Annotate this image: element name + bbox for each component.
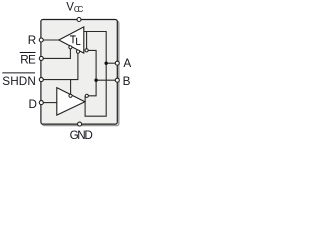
wire SHDN branch to driver enable xyxy=(70,80,72,95)
wire B net xyxy=(88,50,96,95)
svg-text:A: A xyxy=(123,57,131,70)
svg-text:B: B xyxy=(123,75,131,88)
svg-text:CC: CC xyxy=(74,5,84,14)
junction node A xyxy=(105,62,108,65)
pin A xyxy=(115,61,119,65)
pin B xyxy=(115,78,119,82)
svg-text:SHDN: SHDN xyxy=(2,75,36,88)
overline RE xyxy=(20,52,36,54)
pin R xyxy=(39,38,43,42)
driver triangle (points right) xyxy=(57,88,85,116)
wire to pin A xyxy=(106,62,115,64)
svg-text:RE: RE xyxy=(20,53,36,66)
IC body drop shadow xyxy=(42,21,118,126)
svg-text:GND: GND xyxy=(70,129,93,142)
pin D xyxy=(39,101,43,105)
wire SHDN xyxy=(41,53,78,79)
pin GND xyxy=(78,122,82,126)
hysteresis symbol xyxy=(70,36,81,45)
bubble inverter upper xyxy=(85,49,88,52)
wire R to receiver output xyxy=(41,39,59,41)
bubble SHDN enable upper xyxy=(76,50,79,53)
overline SHDN xyxy=(2,72,35,74)
bubble inverter lower xyxy=(85,94,88,97)
bubble SHDN enable lower xyxy=(69,94,72,97)
receiver triangle (points left) xyxy=(59,27,84,53)
wire D input xyxy=(41,102,57,104)
svg-text:D: D xyxy=(29,98,37,111)
IC body box U1 xyxy=(41,20,117,125)
wire riser to inverter bubble upper xyxy=(86,32,88,49)
junction node B xyxy=(94,79,97,82)
wire to pin B xyxy=(96,79,115,81)
pin RE xyxy=(39,56,43,60)
svg-text:R: R xyxy=(28,34,36,47)
wire A net feedback loop xyxy=(84,32,106,117)
pin VCC xyxy=(77,18,81,22)
pin SHDN xyxy=(39,78,43,82)
wire RE to enable bubble xyxy=(41,49,70,59)
bubble RE enable xyxy=(69,46,72,49)
